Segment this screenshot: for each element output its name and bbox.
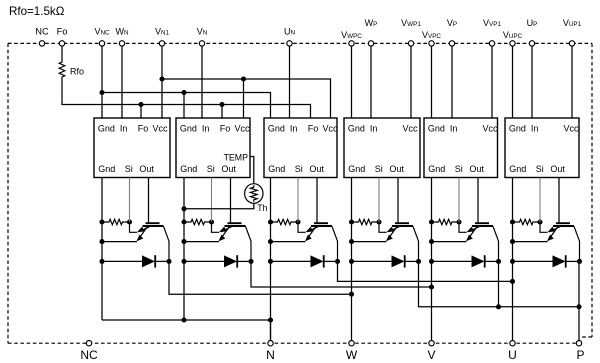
- wire sense emitter cell 4: [379, 222, 387, 232]
- junction rail/diode cell 3: [268, 259, 273, 264]
- junction rail/diode cell 4: [349, 259, 354, 264]
- wire Fo bus drop to U1 Fo pin: [140, 105, 142, 119]
- svg-text:Gnd: Gnd: [268, 123, 285, 133]
- svg-text:In: In: [531, 123, 539, 133]
- terminal VUP1 (top pin): [569, 41, 574, 46]
- wire emitter rail of cell 1: [101, 178, 103, 321]
- wire gate from Out pin cell 4: [397, 178, 399, 223]
- svg-text:Gnd: Gnd: [348, 123, 365, 133]
- svg-text:Gnd: Gnd: [98, 123, 115, 133]
- svg-text:Fo: Fo: [57, 27, 68, 37]
- svg-text:In: In: [290, 123, 298, 133]
- svg-text:Gnd: Gnd: [428, 164, 445, 174]
- junction collector/diode cell 1: [166, 259, 171, 264]
- junction rail/resistor cell 3: [268, 219, 273, 224]
- wire main emitter to rail cell 2: [184, 241, 219, 243]
- diode D5 cathode bar: [484, 255, 486, 267]
- wire sense emitter cell 5: [459, 222, 467, 232]
- wire VWP1 terminal to U4 Vcc pin: [410, 46, 412, 118]
- junction VNC bus: [99, 90, 104, 95]
- svg-text:In: In: [120, 123, 128, 133]
- diode D1 cathode wire: [155, 260, 169, 262]
- terminal WP (top pin): [368, 41, 373, 46]
- junction thermistor/rail: [181, 206, 186, 211]
- junction U rail / Q3 collector: [510, 279, 515, 284]
- terminal VN (top pin): [199, 41, 204, 46]
- transistor Q2 IGBT body bar: [225, 225, 246, 227]
- terminal W (bottom power pin): [349, 341, 354, 346]
- diode D4: [392, 255, 405, 267]
- terminal VNC (top pin): [99, 41, 104, 46]
- junction rail/diode cell 5: [429, 259, 434, 264]
- wire Q6 collector to P terminal: [578, 261, 580, 340]
- svg-text:Vcc: Vcc: [563, 123, 579, 133]
- transistor Q5 IGBT gate bar: [475, 222, 489, 224]
- junction collector/diode cell 6: [577, 259, 582, 264]
- op-amp driver IC U3 (U low-side driver): [264, 118, 337, 178]
- diode D6 cathode bar: [565, 255, 567, 267]
- svg-text:Rfo: Rfo: [70, 67, 84, 77]
- wire Si pin to sense node cell 3: [297, 178, 299, 223]
- junction rail/resistor cell 1: [99, 219, 104, 224]
- svg-text:Gnd: Gnd: [509, 164, 526, 174]
- junction rail/diode cell 6: [510, 259, 515, 264]
- diode D6 anode wire: [513, 260, 553, 262]
- transistor Q3 IGBT body bar: [311, 225, 332, 227]
- wire main emitter to rail cell 4: [352, 241, 387, 243]
- junction resistor/Si cell 3: [295, 219, 300, 224]
- wire VN terminal to U2 In pin: [201, 46, 203, 118]
- terminal NC (top pin): [39, 41, 44, 46]
- wire N terminal riser: [270, 320, 272, 340]
- wire VN1 bus drop to U2 Vcc pin: [243, 79, 245, 118]
- svg-text:Out: Out: [550, 164, 565, 174]
- wire VNC bus drop to U2 Gnd pin: [183, 93, 185, 119]
- junction V rail / Q2 collector: [429, 284, 434, 289]
- svg-text:Fo: Fo: [138, 123, 149, 133]
- terminal P (bottom power pin): [576, 341, 581, 346]
- wire Si pin to sense node cell 5: [458, 178, 460, 223]
- junction resistor/Si cell 4: [376, 219, 381, 224]
- transistor Q6 IGBT gate bar: [556, 222, 570, 224]
- resistor Rs3 (sense): [271, 219, 299, 224]
- svg-text:Vcc: Vcc: [402, 123, 418, 133]
- wire sense emitter cell 3: [298, 222, 306, 232]
- svg-text:Si: Si: [207, 164, 215, 174]
- transistor Q6 collector lead: [574, 226, 580, 261]
- junction rail/emitter cell 3: [268, 239, 273, 244]
- svg-text:NC: NC: [80, 348, 98, 362]
- transistor Q5 IGBT body bar: [472, 225, 493, 227]
- transistor Q1 IGBT body bar: [143, 225, 164, 227]
- svg-text:Gnd: Gnd: [348, 164, 365, 174]
- op-amp driver IC U1 (W low-side driver): [94, 118, 170, 178]
- wire VN1 terminal to U1 Vcc pin: [161, 46, 163, 118]
- wire main emitter to rail cell 6: [513, 241, 548, 243]
- diode D6: [553, 255, 566, 267]
- svg-text:Gnd: Gnd: [180, 123, 197, 133]
- svg-text:Gnd: Gnd: [509, 123, 526, 133]
- diode D2 cathode wire: [237, 260, 251, 262]
- diode D1 anode wire: [102, 260, 142, 262]
- terminal VWPC (top pin): [349, 41, 354, 46]
- resistor Rs4 (sense): [352, 219, 380, 224]
- transistor Q5 collector lead: [493, 226, 499, 261]
- svg-text:U: U: [508, 348, 517, 362]
- wire Si pin to sense node cell 6: [539, 178, 541, 223]
- junction P bus / Q5 collector: [496, 304, 501, 309]
- wire gate from Out pin cell 3: [316, 178, 318, 223]
- wire Fo bus drop to U2 Fo pin: [221, 105, 223, 119]
- diode D2 anode wire: [184, 260, 224, 262]
- wire VUPC terminal to U6 Gnd pin: [512, 46, 514, 118]
- junction VN1 bus at U2 Vcc pin: [241, 76, 246, 81]
- svg-text:Si: Si: [375, 164, 383, 174]
- op-amp driver IC U4 (W high-side driver): [344, 118, 420, 178]
- transistor Q2 main emitter arrow: [220, 227, 230, 241]
- terminal U (bottom power pin): [510, 341, 515, 346]
- transistor Q4 IGBT body bar: [392, 225, 413, 227]
- op-amp driver IC U5 (V high-side driver): [424, 118, 498, 178]
- wire Si pin to sense node cell 2: [211, 178, 213, 223]
- wire VN1 supply bus to U3 Vcc: [162, 79, 331, 118]
- svg-text:Out: Out: [221, 164, 236, 174]
- svg-text:Gnd: Gnd: [98, 164, 115, 174]
- op-amp driver IC U2 (V low-side driver): [176, 118, 250, 178]
- svg-text:Gnd: Gnd: [180, 164, 197, 174]
- transistor Q3 collector lead: [332, 226, 338, 261]
- transistor Q6 main emitter arrow: [548, 227, 558, 241]
- wire emitter rail of cell 2: [183, 178, 185, 321]
- diode D3 cathode bar: [323, 255, 325, 267]
- svg-text:Out: Out: [389, 164, 404, 174]
- terminal VP (top pin): [449, 41, 454, 46]
- junction VNC bus at U2 Gnd pin: [181, 90, 186, 95]
- junction rail/emitter cell 6: [510, 239, 515, 244]
- junction resistor/Si cell 6: [537, 219, 542, 224]
- junction collector/diode cell 3: [335, 259, 340, 264]
- wire Q3 collector to U phase: [338, 261, 513, 281]
- junction N bus at N terminal riser: [268, 317, 273, 322]
- diode D4 anode wire: [352, 260, 392, 262]
- junction resistor/Si cell 5: [456, 219, 461, 224]
- terminal WN (top pin): [119, 41, 124, 46]
- svg-text:Si: Si: [455, 164, 463, 174]
- wire VP terminal to U5 In pin: [451, 46, 453, 118]
- transistor Q1 sense emitter arrow: [139, 227, 151, 232]
- transistor Q4 sense emitter arrow: [388, 227, 400, 232]
- wire VUP1 terminal to U6 Vcc pin: [571, 46, 573, 118]
- wire gate from Out pin cell 1: [148, 178, 150, 223]
- wire N emitter bus: [102, 319, 271, 321]
- wire Fo terminal to Rfo resistor: [61, 46, 63, 60]
- diode D3 cathode wire: [324, 260, 338, 262]
- wire emitter rail of cell 3: [270, 178, 272, 341]
- wire Si pin to sense node cell 4: [378, 178, 380, 223]
- svg-text:Th: Th: [257, 203, 267, 213]
- wire UP terminal to U6 In pin: [531, 46, 533, 118]
- wire emitter rail of cell 4: [351, 178, 353, 341]
- transistor Q3 sense emitter arrow: [307, 227, 319, 232]
- wire sense emitter cell 6: [540, 222, 548, 232]
- junction rail/diode cell 2: [181, 259, 186, 264]
- diode D1: [142, 255, 155, 267]
- svg-text:Si: Si: [295, 164, 303, 174]
- wire WP terminal to U4 In pin: [370, 46, 372, 118]
- junction Fo bus at U2 Fo pin: [219, 102, 224, 107]
- transistor Q2 collector lead: [246, 226, 252, 261]
- svg-text:NC: NC: [35, 27, 49, 37]
- junction rail/emitter cell 1: [99, 239, 104, 244]
- transistor Q3 main emitter arrow: [306, 227, 316, 241]
- junction rail/emitter cell 4: [349, 239, 354, 244]
- svg-text:In: In: [202, 123, 210, 133]
- wire VNC ground bus to U3 Gnd: [102, 93, 271, 119]
- diode D6 cathode wire: [566, 260, 580, 262]
- junction Fo bus at U1 Fo pin: [138, 102, 143, 107]
- svg-text:Vcc: Vcc: [234, 123, 250, 133]
- wire VWPC terminal to U4 Gnd pin: [351, 46, 353, 118]
- wire sense emitter cell 2: [212, 222, 220, 232]
- wire Rfo to Fo bus: [62, 79, 311, 118]
- junction rail/diode cell 1: [99, 259, 104, 264]
- wire VVPC terminal to U5 Gnd pin: [431, 46, 433, 118]
- terminal VVPC (top pin): [429, 41, 434, 46]
- diode D2 cathode bar: [236, 255, 238, 267]
- resistor Rs2 (sense): [184, 219, 212, 224]
- resistor Rs1 (sense): [102, 219, 130, 224]
- diode D4 cathode wire: [405, 260, 419, 262]
- terminal UN (top pin): [287, 41, 292, 46]
- svg-text:W: W: [346, 348, 358, 362]
- transistor Q4 main emitter arrow: [387, 227, 397, 241]
- transistor Q5 sense emitter arrow: [468, 227, 480, 232]
- transistor Q6 IGBT body bar: [553, 225, 574, 227]
- transistor Q1 main emitter arrow: [138, 227, 148, 241]
- transistor Q4 collector lead: [413, 226, 419, 261]
- wire emitter rail of cell 6: [512, 178, 514, 341]
- wire Q2 collector to V phase: [251, 261, 432, 287]
- op-amp driver IC U6 (U high-side driver): [505, 118, 579, 178]
- transistor Q1 collector lead: [164, 226, 170, 261]
- wire Q5 collector drop: [498, 261, 500, 306]
- resistor Rfo: [59, 60, 65, 79]
- diode D5: [472, 255, 485, 267]
- wire main emitter to rail cell 5: [432, 241, 467, 243]
- svg-text:Out: Out: [309, 164, 324, 174]
- wire WN terminal to U1 In pin: [121, 46, 123, 118]
- wire VVP1 terminal to U5 Vcc pin: [491, 46, 493, 118]
- svg-text:Out: Out: [469, 164, 484, 174]
- junction collector/diode cell 2: [248, 259, 253, 264]
- svg-text:In: In: [370, 123, 378, 133]
- terminal VVP1 (top pin): [489, 41, 494, 46]
- diode D3 anode wire: [271, 260, 311, 262]
- module case outline (dashed): [8, 42, 592, 44]
- junction N bus at cell 2 rail: [181, 317, 186, 322]
- svg-text:Si: Si: [536, 164, 544, 174]
- junction collector/diode cell 4: [416, 259, 421, 264]
- wire thermistor to V-phase emitter rail: [184, 203, 254, 209]
- diode D4 cathode bar: [404, 255, 406, 267]
- wire Q4 collector to P bus: [419, 261, 580, 306]
- junction resistor/Si cell 1: [127, 219, 132, 224]
- svg-text:V: V: [427, 348, 435, 362]
- junction rail/emitter cell 5: [429, 239, 434, 244]
- svg-text:P: P: [576, 348, 584, 362]
- transistor Q1 IGBT gate bar: [146, 222, 160, 224]
- transistor Q2 IGBT gate bar: [228, 222, 242, 224]
- thermistor Th: [245, 184, 263, 204]
- svg-text:Gnd: Gnd: [268, 164, 285, 174]
- wire U2 TEMP Out pin to thermistor: [250, 157, 254, 184]
- transistor Q5 main emitter arrow: [467, 227, 477, 241]
- terminal Fo (top pin): [59, 41, 64, 46]
- svg-text:Fo: Fo: [220, 123, 231, 133]
- junction rail/resistor cell 2: [181, 219, 186, 224]
- svg-text:N: N: [266, 348, 275, 362]
- terminal UP (top pin): [529, 41, 534, 46]
- terminal N (bottom power pin): [268, 341, 273, 346]
- svg-text:Fo: Fo: [308, 123, 319, 133]
- junction resistor/Si cell 2: [209, 219, 214, 224]
- wire sense emitter cell 1: [130, 222, 138, 232]
- junction P bus / P terminal riser: [576, 304, 581, 309]
- svg-text:TEMP: TEMP: [224, 152, 249, 162]
- terminal VN1 (top pin): [159, 41, 164, 46]
- diode D3: [311, 255, 324, 267]
- resistor Rs6 (sense): [513, 219, 541, 224]
- wire gate from Out pin cell 2: [230, 178, 232, 223]
- svg-text:Vcc: Vcc: [482, 123, 498, 133]
- junction rail/resistor cell 6: [510, 219, 515, 224]
- wire Si pin to sense node cell 1: [129, 178, 131, 223]
- diode D5 cathode wire: [485, 260, 499, 262]
- transistor Q4 IGBT gate bar: [395, 222, 409, 224]
- terminal VUPC (top pin): [510, 41, 515, 46]
- svg-text:Gnd: Gnd: [428, 123, 445, 133]
- wire gate from Out pin cell 5: [477, 178, 479, 223]
- svg-text:In: In: [450, 123, 458, 133]
- wire gate from Out pin cell 6: [558, 178, 560, 223]
- transistor Q2 sense emitter arrow: [221, 227, 233, 232]
- junction collector/diode cell 5: [496, 259, 501, 264]
- wire VNC terminal to U1 Gnd pin: [101, 46, 103, 118]
- svg-text:Vcc: Vcc: [152, 123, 168, 133]
- wire Q1 collector to W phase: [169, 261, 352, 294]
- junction W rail / Q1 collector: [349, 292, 354, 297]
- svg-text:Out: Out: [139, 164, 154, 174]
- wire UN terminal to U3 In pin: [289, 46, 291, 118]
- diode D2: [224, 255, 237, 267]
- svg-text:Vcc: Vcc: [322, 123, 338, 133]
- junction rail/resistor cell 4: [349, 219, 354, 224]
- terminal VWP1 (top pin): [408, 41, 413, 46]
- junction rail/emitter cell 2: [181, 239, 186, 244]
- terminal NC (bottom power pin): [86, 341, 91, 346]
- junction VN1 bus: [159, 76, 164, 81]
- diode D1 cathode bar: [154, 255, 156, 267]
- resistor Rs5 (sense): [432, 219, 460, 224]
- diode D5 anode wire: [432, 260, 472, 262]
- wire main emitter to rail cell 3: [271, 241, 306, 243]
- terminal V (bottom power pin): [429, 341, 434, 346]
- junction rail/resistor cell 5: [429, 219, 434, 224]
- transistor Q6 sense emitter arrow: [549, 227, 561, 232]
- svg-text:Rfo=1.5kΩ: Rfo=1.5kΩ: [9, 5, 65, 18]
- wire main emitter to rail cell 1: [102, 241, 137, 243]
- svg-text:Si: Si: [125, 164, 133, 174]
- wire emitter rail of cell 5: [431, 178, 433, 341]
- transistor Q3 IGBT gate bar: [314, 222, 328, 224]
